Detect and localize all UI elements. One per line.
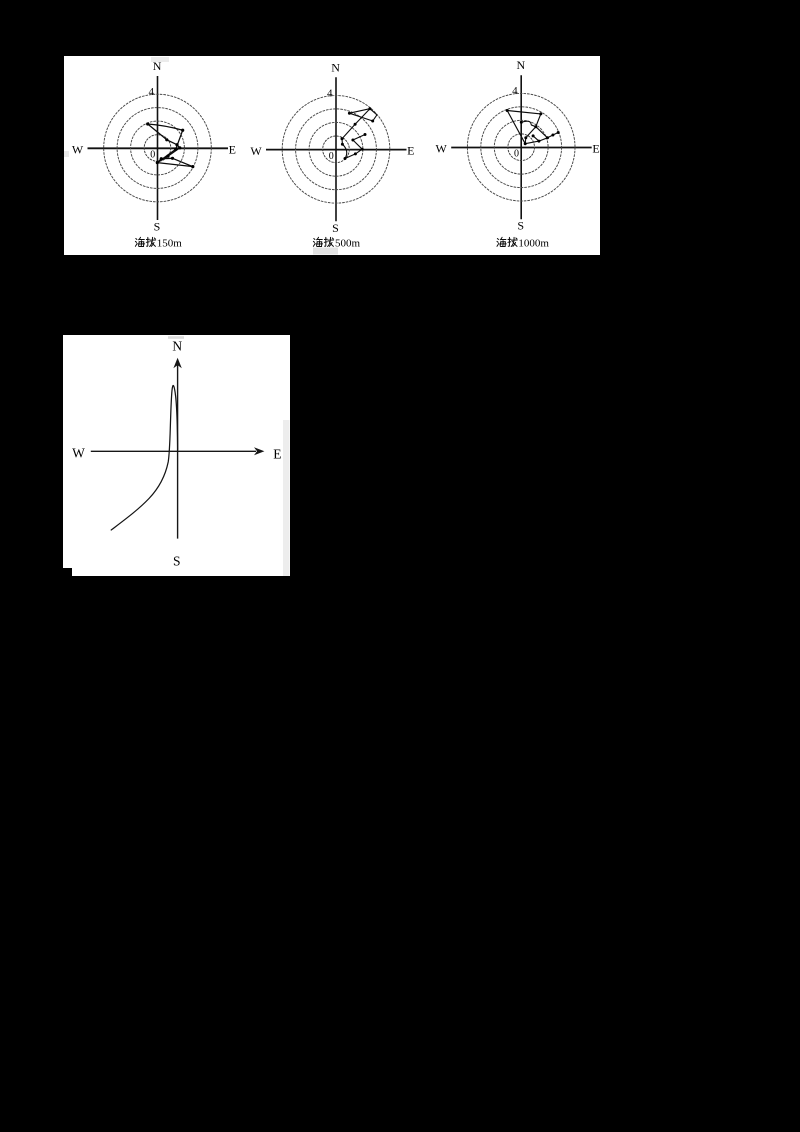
faint scan shading at panel right edge <box>283 420 290 576</box>
polyline segment 5 of rose 1000m <box>533 136 539 141</box>
white panel: compass with river curve <box>63 335 290 576</box>
svg-text:E: E <box>229 142 236 156</box>
svg-text:N: N <box>172 339 182 354</box>
dashed circle r3 <box>296 109 377 190</box>
inner circle r1 (solid) <box>508 134 535 161</box>
wind rose axes (N-S, W-E) for 1000m <box>520 75 522 219</box>
polyline segment 6 of rose 150m <box>157 158 193 166</box>
dashed circle r2 <box>309 122 363 176</box>
polyline segment 4 of rose 1000m <box>525 141 539 144</box>
svg-text:4: 4 <box>148 86 154 98</box>
white panel: three wind-rose charts <box>64 56 600 255</box>
caption alt1000m <box>497 237 506 246</box>
svg-text:S: S <box>517 219 524 233</box>
svg-text:4: 4 <box>512 85 518 97</box>
caption alt150m <box>135 237 144 246</box>
polyline segment 1 of rose 1000m <box>507 111 541 127</box>
west-east axis line <box>91 450 256 452</box>
svg-text:500m: 500m <box>335 238 361 250</box>
polyline segment 7 of rose 1000m <box>536 127 548 138</box>
wind rose chart 3 (alt 1000m) <box>436 58 600 233</box>
svg-text:0: 0 <box>150 150 155 161</box>
svg-text:0: 0 <box>329 151 334 162</box>
east arrowhead <box>254 447 264 455</box>
svg-text:N: N <box>331 60 340 74</box>
svg-text:1000m: 1000m <box>518 238 549 250</box>
polyline segment 3 of rose 1000m <box>507 111 525 144</box>
wind rose chart 1 (alt 150m) <box>72 59 236 234</box>
polyline segment 1 of rose 150m <box>148 124 183 130</box>
dashed circle r2 <box>494 120 548 174</box>
svg-text:E: E <box>592 142 599 156</box>
svg-text:W: W <box>72 445 85 460</box>
svg-text:4: 4 <box>327 87 333 99</box>
polyline segment 4 of rose 150m <box>157 148 180 163</box>
dashed circle r4 <box>104 94 212 202</box>
polyline segment 5 of rose 500m <box>345 149 362 158</box>
small scan mark above N <box>168 336 184 339</box>
north arrowhead <box>173 358 181 368</box>
wind rose axes (N-S, W-E) for 500m <box>335 77 337 221</box>
polyline segment 1 of rose 500m <box>349 109 377 121</box>
dashed circle r2 <box>131 121 185 175</box>
svg-text:W: W <box>250 144 262 158</box>
north axis line <box>177 364 179 539</box>
svg-text:N: N <box>516 58 525 72</box>
scan notch (black) at panel 2 bottom-left corner <box>63 568 72 576</box>
polyline segment 4 of rose 500m <box>342 144 346 158</box>
svg-text:W: W <box>436 142 448 156</box>
svg-text:E: E <box>407 144 414 158</box>
data point dots <box>146 122 149 125</box>
svg-text:S: S <box>154 220 161 234</box>
inner circle r1 (solid) <box>144 135 171 162</box>
dashed circle r3 <box>481 107 562 188</box>
wind rose chart 2 (alt 500m) <box>250 60 414 235</box>
faint scan smudge above rose 1 <box>151 57 169 62</box>
dashed circle r4 <box>282 96 390 204</box>
polyline segment 2 of rose 1000m <box>525 127 536 144</box>
data point dots <box>348 112 351 115</box>
polyline segment 2 of rose 500m <box>342 109 370 139</box>
caption alt500m <box>313 237 322 246</box>
svg-text:150m: 150m <box>157 238 183 250</box>
svg-text:S: S <box>332 221 339 235</box>
polyline segment 3 of rose 500m <box>341 139 343 144</box>
svg-text:E: E <box>273 447 281 462</box>
faint scan smudge at left edge <box>64 151 69 157</box>
polyline segment 8 of rose 1000m <box>521 121 536 126</box>
wind rose axes (N-S, W-E) for 150m <box>157 76 159 220</box>
river curve with hairpin spike <box>111 385 177 530</box>
svg-text:W: W <box>72 143 84 157</box>
data point dots <box>506 109 509 112</box>
polyline segment 6 of rose 500m <box>353 135 365 150</box>
dashed circle r4 <box>467 93 575 201</box>
faint scan smudge below caption 500m <box>313 248 338 255</box>
inner circle r1 (solid) <box>323 136 350 163</box>
svg-text:0: 0 <box>514 149 519 160</box>
polyline segment 5 of rose 150m <box>157 163 193 167</box>
polyline segment 6 of rose 1000m <box>539 133 558 142</box>
dashed circle r3 <box>117 108 198 189</box>
polyline segment 2 of rose 150m <box>148 124 180 148</box>
svg-text:S: S <box>173 553 181 568</box>
polyline segment 3 of rose 150m <box>157 130 182 162</box>
